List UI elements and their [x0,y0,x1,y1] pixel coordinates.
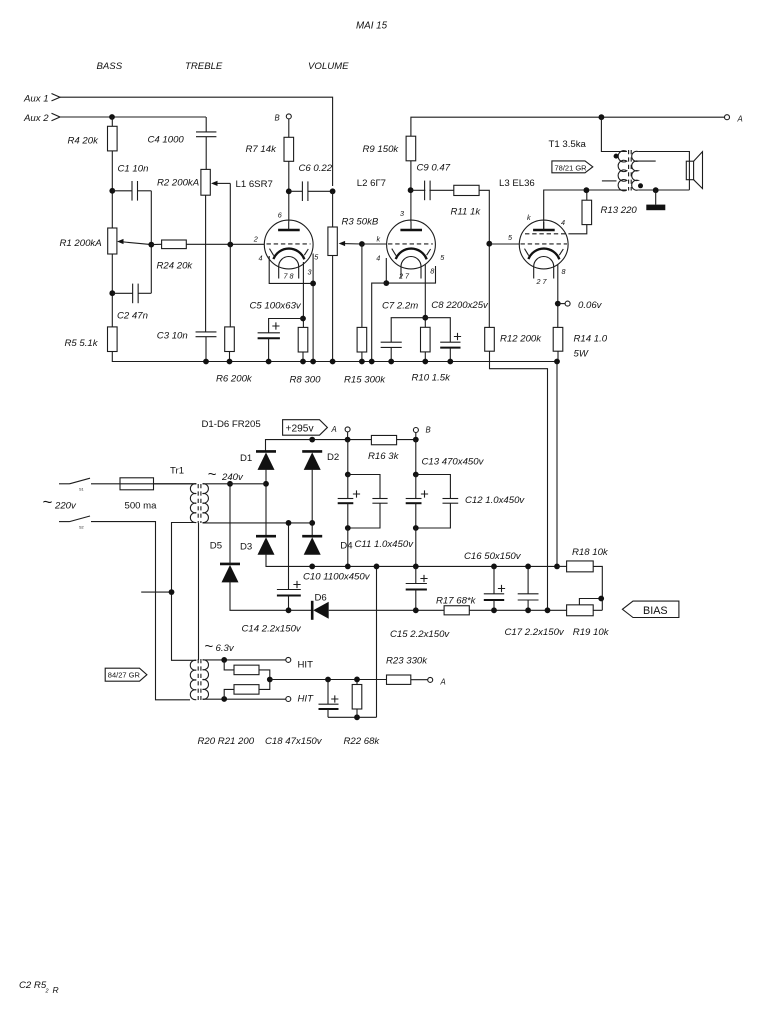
svg-text:L2 6Г7: L2 6Г7 [357,178,386,189]
wire Aux2 line [60,116,206,118]
node shield [169,589,175,595]
node R1 wiper [148,242,154,248]
wire R7 to plate node [288,161,290,222]
svg-text:k: k [377,235,381,244]
svg-text:R: R [53,985,59,995]
svg-text:78/21 GR: 78/21 GR [555,163,588,172]
svg-text:C11 1.0x450v: C11 1.0x450v [355,539,415,550]
node C10 rail [345,564,351,570]
wire C7 tap [391,318,425,343]
tube L1 body [264,220,313,269]
tube L3 body [519,220,568,269]
svg-text:R13 220: R13 220 [601,205,638,216]
wire C3 to bus [205,337,207,362]
node C13 rail [413,564,419,570]
wire T1 secondary top lead to speaker [638,152,689,190]
node C14 bias rail [286,607,292,613]
wire R4 to C1 node [111,151,113,228]
wire C8 to bus [449,348,451,362]
T1 tag 78/21 GR [552,161,593,173]
node T1 primary top [599,114,605,120]
stub A terminal [347,432,349,440]
terminal HIT1 [286,657,291,662]
L1 grid dashed [267,243,311,245]
tag +295v [283,420,328,436]
wire grid to L3 [489,243,519,245]
Tr1 heater primary winding [190,660,196,699]
node D2 240v [309,520,315,526]
wire 240v bottom lead [203,522,313,524]
svg-text:MAI 15: MAI 15 [356,21,388,32]
Tr1 core dashed lower [197,659,199,700]
svg-text:4: 4 [376,254,380,263]
wire C4 to R2 [205,137,207,170]
wire R21 left [224,689,234,699]
wire D1 anode down [265,469,267,536]
node R10 bus [422,359,428,365]
svg-text:R14 1.0: R14 1.0 [574,334,608,345]
svg-text:~: ~ [205,638,214,655]
node heater top [221,657,227,663]
svg-text:A: A [331,425,337,434]
svg-text:R18 10k: R18 10k [572,547,609,558]
wire R2 wiper vertical [229,183,231,327]
node R10 top [422,315,428,321]
tube L2 body [387,220,436,269]
wire bus down to PSU rail [556,362,558,567]
L3 grid dashed [521,243,568,245]
node L2 cathode bus [369,359,375,365]
wire 0.06v stub [558,303,565,305]
node R14-line rail [554,564,560,570]
node C8 bus [447,359,453,365]
svg-text:4: 4 [561,218,565,227]
svg-text:A: A [737,115,743,124]
L2 grid dashed [388,243,433,245]
wire S2 down to heater primary [91,522,190,700]
wire R14 to bus corner [557,351,558,361]
svg-text:4: 4 [259,254,263,263]
wire R21 right to mid [259,680,270,690]
node C10 top [345,472,351,478]
svg-text:C15 2.2x150v: C15 2.2x150v [390,629,450,640]
svg-text:HIT: HIT [298,659,314,670]
svg-text:D3: D3 [240,542,252,553]
wire C10 leads [347,475,349,499]
node C14 240v [286,520,292,526]
wire B to R7 [288,119,290,137]
capacitor C16 electrolytic [484,593,504,595]
svg-text:R10 1.5k: R10 1.5k [412,373,452,384]
node C6 volume line [330,188,336,194]
wire C7 to bus [390,347,392,361]
svg-text:D6: D6 [315,592,327,603]
node D5 240v [227,481,233,487]
wire C1 left lead [112,190,132,192]
wire R24 to grid node [186,243,264,245]
T1 secondary winding [632,151,638,190]
node C18 top [325,677,331,683]
svg-text:C2 47n: C2 47n [117,310,148,321]
wire C9 to R11 [429,189,453,191]
svg-text:2 7: 2 7 [536,277,548,286]
L3 plate lead [543,222,545,230]
svg-text:C1 10n: C1 10n [118,164,149,175]
wire R2 to C3 [205,195,207,332]
svg-text:R7 14k: R7 14k [246,144,278,155]
svg-text:C9 0.47: C9 0.47 [417,162,451,173]
wire D2 anode down [311,469,313,536]
terminal 0.06v [565,301,570,306]
svg-text:R15 300k: R15 300k [344,375,386,386]
terminal A top right [725,115,730,120]
L3 screen dashed [525,233,568,235]
svg-text:5W: 5W [574,349,589,360]
svg-text:7 8: 7 8 [284,272,294,281]
wire R23 to A terminal [411,679,428,681]
switch S2 [59,521,70,523]
wire Aux1 to volume line [60,97,333,186]
wire 6.3v bottom lead [203,698,286,700]
wire to ground [655,190,657,204]
node L1 cathode box corner [310,281,316,287]
wire B+ rail [411,117,725,136]
svg-text:D1-D6 FR205: D1-D6 FR205 [202,419,261,430]
node D4 minus rail [309,564,315,570]
L1 plate lead [288,222,290,230]
svg-text:C7 2.2m: C7 2.2m [382,301,418,312]
node C5 bus [266,359,272,365]
wire plate to C9 [411,189,426,191]
resistor R20 [234,665,259,675]
node R3 wiper [359,241,365,247]
node C13 bottom [413,525,419,531]
wiper R2 arrow [215,182,231,184]
Tr1 primary winding [190,484,196,523]
node Aux2/R4 [109,114,115,120]
svg-text:R8 300: R8 300 [290,375,322,386]
svg-text:C3 10n: C3 10n [157,331,188,342]
wire C15 leads [415,566,417,583]
wire R18 right down [593,566,602,610]
svg-text:C18 47x150v: C18 47x150v [265,736,323,747]
wire C13 to minus rail [415,528,417,566]
node C2 left [109,290,115,296]
svg-text:2: 2 [253,235,258,244]
svg-text:R23 330k: R23 330k [386,656,428,667]
wire D6 to bias rail right [329,609,603,611]
wire C13 leads [415,475,417,499]
L2 plate lead [410,222,412,230]
node R12-line bias rail [545,607,551,613]
wire T1 primary bottom lead [620,189,627,191]
node R22 top [354,677,360,683]
node heater rail [374,564,380,570]
svg-text:B: B [426,426,431,435]
terminal HIT2 [286,697,291,702]
node C1 left [109,188,115,194]
node R13 bottom screen [568,225,586,234]
wire L3 plate up to transformer [544,190,620,230]
capacitor C10 electrolytic [338,498,354,500]
svg-text:L1 6SR7: L1 6SR7 [236,179,273,190]
wire rail to R18 [557,565,567,567]
wire C1-C2 right vertical [150,191,152,293]
wire D3 anode to rail [266,554,557,567]
R19 wiper tap [579,599,601,605]
node C10 bottom [345,525,351,531]
Tr1 core line middle [198,523,200,660]
svg-text:D4: D4 [340,541,353,552]
Tr1 6.3v secondary winding [203,660,209,699]
resistor R21 [234,685,259,695]
wire C5 tap [269,319,303,333]
T1 primary phase dot [614,154,619,159]
wire R12 to bias line [490,351,548,610]
svg-text:6: 6 [278,211,282,220]
shield stub [141,591,171,593]
svg-text:R6 200k: R6 200k [216,374,253,385]
svg-text:220v: 220v [54,501,77,512]
wire R1 bottom to C2 node [111,254,113,327]
Tr1 core dashed upper [197,484,199,523]
wire +295 rail [266,440,416,452]
node L1 cathode bus [310,359,316,365]
svg-text:R1 200kA: R1 200kA [60,238,102,249]
node R6 bus [227,359,233,365]
svg-text:C8 2200x25v: C8 2200x25v [431,300,489,311]
svg-text:C12 1.0x450v: C12 1.0x450v [465,495,525,506]
svg-text:R24 20k: R24 20k [157,260,194,271]
svg-text:C10 1100x450v: C10 1100x450v [303,572,371,583]
wire C18 leads [327,680,329,705]
svg-text:D2: D2 [327,452,339,463]
svg-text:0.06v: 0.06v [578,300,603,311]
svg-text:Tr1: Tr1 [170,465,184,476]
node R3 bus [330,359,336,365]
wire C4 top [205,117,207,132]
node C13 top [413,472,419,478]
svg-text:D5: D5 [210,541,222,552]
svg-text:C13 470x450v: C13 470x450v [422,456,485,467]
svg-text:BASS: BASS [97,61,123,72]
svg-text:R20 R21 200: R20 R21 200 [198,736,255,747]
svg-text:R9 150k: R9 150k [363,144,400,155]
wire R22 bottom [356,709,358,717]
svg-text:3: 3 [308,268,312,277]
wire heater ground line [328,716,377,718]
wire C6 to volume line [308,190,333,192]
node L3 grid [486,241,492,247]
L1 cathode lead down [312,254,314,362]
node C17 bottom [525,607,531,613]
svg-text:+295v: +295v [286,424,315,435]
wire R15 to bus [361,352,363,362]
svg-text:BIAS: BIAS [643,605,668,617]
node R13 plate line [584,187,590,193]
wire T1 secondary bottom lead [638,189,689,191]
svg-text:8: 8 [562,267,566,276]
wire C1 right lead [138,190,152,192]
svg-text:C6 0.22: C6 0.22 [299,163,333,174]
wire A node down [347,440,349,475]
wire B node down [415,440,417,475]
node C5/R8 [300,316,306,322]
svg-text:C16 50x150v: C16 50x150v [464,551,522,562]
svg-text:R22 68k: R22 68k [344,736,381,747]
T1 core dashed [628,150,630,191]
L2 pin8 lead [424,264,426,327]
svg-text:3: 3 [400,209,404,218]
wire R20 right to mid [259,670,270,680]
svg-text:A: A [440,677,446,686]
wire D5 anode to bias rail [230,581,312,610]
wire C17 leads [527,566,529,593]
wire R22 top [356,680,358,685]
wire C2 leads [112,292,132,294]
wire Tr1 primary bottom to lower coil [172,523,197,661]
wire R20 left [224,660,234,670]
wire C14 bottom lead [288,596,290,611]
wire T1 primary top lead [601,117,626,151]
wire C14 top lead [288,523,290,590]
speaker [686,161,693,180]
switch S1 [59,483,70,485]
svg-text:L3 EL36: L3 EL36 [499,178,535,189]
node L1 plate [286,188,292,194]
wire C10 to minus rail [347,528,349,566]
node speaker ground [653,187,659,193]
node 0.06v [555,301,561,307]
wiper R3 arrow [342,243,362,245]
svg-text:~: ~ [43,493,53,512]
svg-text:Aux 1: Aux 1 [23,94,49,105]
svg-text:2: 2 [45,988,49,994]
node C17 top [525,564,531,570]
svg-text:C14 2.2x150v: C14 2.2x150v [242,624,302,635]
ground bar [646,205,665,211]
Tr1 240v secondary winding [203,484,209,523]
svg-text:R16 3k: R16 3k [368,451,400,462]
node D1 240v [263,481,269,487]
node A rail [345,437,351,443]
svg-text:Aux 2: Aux 2 [23,113,49,124]
svg-text:R3 50kB: R3 50kB [342,217,379,228]
svg-text:8: 8 [430,267,434,276]
wire wiper to L2 grid [362,243,387,245]
svg-text:84/27 GR: 84/27 GR [108,671,141,680]
node C16 top [491,564,497,570]
wire wiper to R15 [361,244,363,327]
svg-text:R11 1k: R11 1k [451,207,482,218]
svg-text:C4 1000: C4 1000 [148,135,185,146]
L1 pin box [269,256,313,283]
T1 secondary phase dot [638,183,643,188]
capacitor C18 electrolytic [319,703,339,705]
wire L3 cathode [557,264,559,327]
node heater bottom [221,696,227,702]
wire D5 cathode up [229,484,231,564]
wire C12 loop [416,475,451,499]
node C16 bottom [491,607,497,613]
wire 240v top lead [203,483,267,485]
svg-text:k: k [527,213,531,222]
wire mid line to R23 [270,679,387,681]
svg-text:240v: 240v [221,472,244,483]
node R22 bottom [354,714,360,720]
svg-text:C17 2.2x150v: C17 2.2x150v [505,627,565,638]
node C15 bottom [413,607,419,613]
T1 primary tap stub [602,180,617,182]
wire R10 to bus [424,352,426,362]
svg-text:TREBLE: TREBLE [185,61,223,72]
svg-text:S1: S1 [79,488,84,492]
svg-text:R19 10k: R19 10k [573,627,610,638]
T1 primary winding [618,151,627,191]
node humdinger mid [267,677,273,683]
wire C11 loop [348,475,380,499]
svg-text:S2: S2 [79,526,84,530]
node L2 plate [408,187,414,193]
node B rail [413,437,419,443]
wire 6.3v top lead [203,659,286,661]
svg-text:R2 200kA: R2 200kA [157,178,199,189]
T1 secondary tap stub [634,160,656,162]
node L2 cathode corner [383,280,389,286]
svg-text:T1 3.5ka: T1 3.5ka [549,139,587,150]
wire volume line to R3 [332,191,334,227]
svg-text:C2 R5: C2 R5 [19,980,47,991]
stub B terminal [415,433,417,440]
wire S1 to fuse [91,483,120,485]
wire R11 to L3 grid [479,190,489,327]
svg-text:6.3v: 6.3v [216,643,235,654]
wire R13 top [586,190,588,200]
wire Tr1 primary top [154,483,197,485]
tag BIAS [622,601,679,617]
svg-text:500 ma: 500 ma [125,501,158,512]
svg-text:R17 68*k: R17 68*k [436,596,477,607]
node R19 tap [598,596,604,602]
svg-text:HIT: HIT [298,694,315,705]
svg-text:2 7: 2 7 [398,272,410,281]
svg-text:R4 20k: R4 20k [68,135,100,146]
node C3 bus [203,359,209,365]
wire R8 branch [302,283,304,327]
terminal A heater [428,677,433,682]
wire R3 to bus [332,256,334,362]
wire heater ground up to minus rail [376,566,378,717]
wire C8 tap [425,318,450,343]
node R14 bus [554,359,560,365]
tag 84/27 GR [105,668,147,681]
wire R9 to plate node [410,161,412,222]
node R24/R2wiper/L1 grid [227,242,233,248]
wire R4 top [111,117,113,126]
svg-text:VOLUME: VOLUME [308,61,349,72]
wiper R1 arrow [121,242,151,245]
L2 pin box [386,258,435,283]
wire C16 leads [493,566,495,593]
svg-text:C5 100x63v: C5 100x63v [250,301,302,312]
wire L2 cathode to bus [372,283,387,361]
wire wiper to R24 [151,243,161,245]
node C7 bus [388,359,394,365]
wire R8 to bus [302,352,304,362]
wire R6 to bus [229,352,231,362]
wire fuse to Tr1 [154,483,197,485]
node R15 bus [359,359,365,365]
